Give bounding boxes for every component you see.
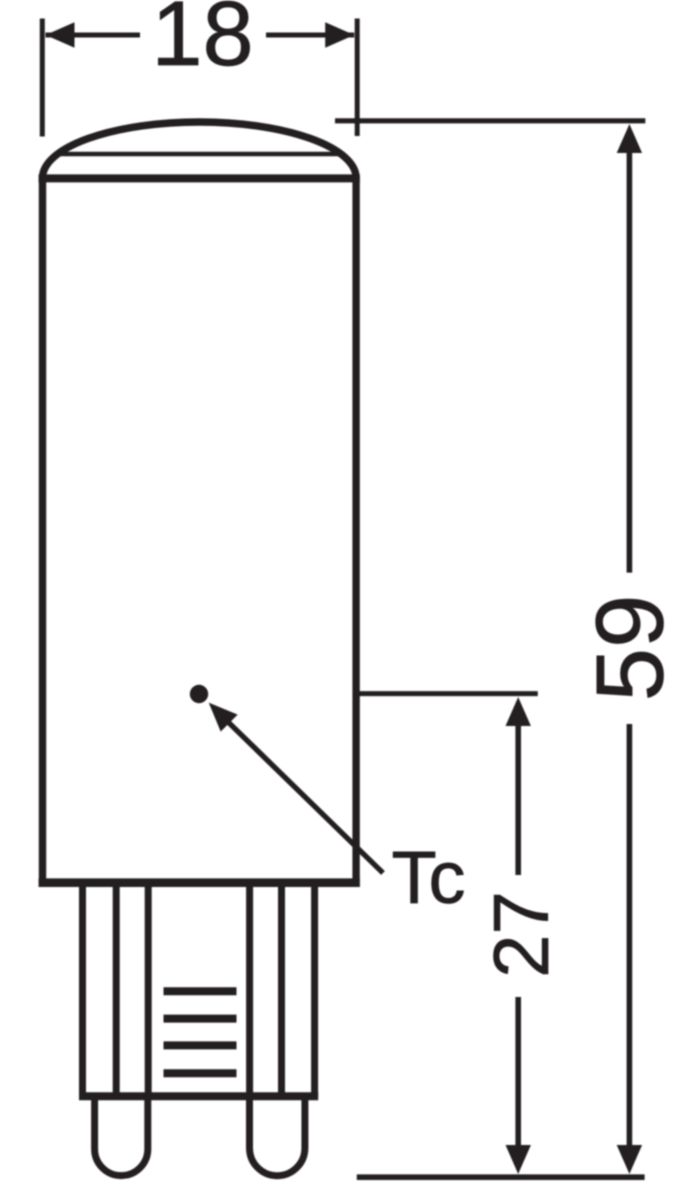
svg-text:Tc: Tc: [392, 836, 466, 919]
svg-text:18: 18: [151, 0, 253, 85]
svg-text:59: 59: [576, 595, 683, 702]
svg-text:27: 27: [477, 891, 565, 978]
